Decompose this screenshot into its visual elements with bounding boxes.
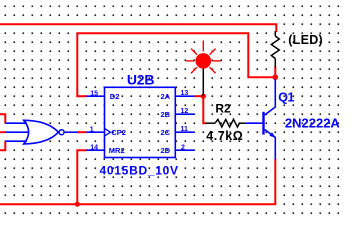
wire NOR input 2 from left edge	[0, 131, 6, 133]
junction LED node	[201, 94, 206, 99]
resistor (LED) bottom lead	[274, 59, 276, 68]
svg-text:CP2: CP2	[111, 128, 126, 137]
wire pin13 to LED node	[195, 95, 204, 97]
wire bottom ground rail	[0, 159, 275, 205]
svg-text:1: 1	[90, 126, 94, 133]
junction collector node	[273, 74, 279, 80]
NOR gate output bubble	[59, 130, 64, 135]
svg-text:12: 12	[181, 108, 189, 115]
svg-text:15: 15	[90, 90, 98, 97]
pin stub CP2 (1)	[86, 131, 104, 133]
svg-text:2: 2	[181, 145, 185, 152]
resistor R2 right lead	[240, 122, 247, 124]
transistor Q1 collector	[265, 79, 276, 115]
svg-text:2C: 2C	[161, 128, 171, 137]
NOR gate input stub 2	[5, 131, 28, 133]
wire NOR input 1 from left edge	[0, 114, 5, 123]
svg-text:11: 11	[181, 126, 189, 133]
clock chevron CP2	[105, 128, 111, 136]
resistor R2 left lead	[206, 122, 216, 124]
wire NOR output to CP2	[77, 131, 87, 133]
svg-text:R2: R2	[215, 102, 231, 116]
svg-text:MR2: MR2	[109, 146, 125, 155]
svg-text:13: 13	[181, 90, 189, 97]
NOR gate input stub 1	[5, 122, 27, 124]
transistor Q1 emitter arrow	[269, 132, 275, 137]
LED indicator body	[196, 53, 212, 69]
LED indicator rays	[186, 41, 221, 74]
pin stub D2 (15)	[86, 95, 104, 97]
svg-text:2D: 2D	[161, 146, 171, 155]
svg-text:2N2222A: 2N2222A	[285, 116, 341, 131]
svg-text:Q1: Q1	[278, 90, 294, 104]
svg-text:14: 14	[90, 144, 98, 151]
wire MR2 to bottom rail	[77, 150, 87, 204]
pin stub MR2 (14)	[86, 149, 104, 151]
pin stub 2B (12)	[175, 113, 194, 115]
resistor R2 zigzag	[215, 119, 240, 127]
IC U2B box	[105, 87, 176, 157]
resistor (LED) zigzag	[271, 36, 279, 59]
svg-text:2B: 2B	[161, 110, 171, 119]
pin stub 2D (2)	[175, 149, 194, 151]
transistor Q1 base bar	[262, 112, 264, 135]
LED lead to pin13 node	[202, 69, 204, 97]
wire rail from D2 riser to collector node	[77, 33, 275, 96]
junction MR2/bottom rail	[75, 202, 80, 207]
wire white casing (erase grid under wires)	[0, 24, 276, 204]
pin stub 2C (11)	[175, 131, 194, 133]
wire LED node down to R2	[203, 96, 206, 123]
svg-text:(LED): (LED)	[288, 33, 323, 47]
NOR gate input stub 3	[5, 140, 27, 142]
svg-text:D2: D2	[110, 92, 120, 101]
NOR gate output stub	[64, 131, 77, 133]
resistor (LED) R top lead	[274, 31, 276, 36]
transistor Q1 base wire	[245, 122, 263, 124]
svg-text:4.7kΩ: 4.7kΩ	[206, 129, 243, 143]
svg-text:4015BD_10V: 4015BD_10V	[100, 164, 179, 178]
transistor Q1 emitter	[265, 130, 276, 160]
NOR gate U1 body	[24, 120, 59, 144]
pin stub 2A (13)	[175, 95, 194, 97]
svg-text:U2B: U2B	[127, 72, 154, 88]
wire LED resistor bottom to collector node	[274, 67, 276, 78]
wire D2 pin connection	[76, 95, 87, 97]
svg-text:2A: 2A	[161, 92, 171, 101]
wire top power rail	[0, 24, 276, 32]
wire NOR input 3 from left edge	[0, 141, 5, 150]
